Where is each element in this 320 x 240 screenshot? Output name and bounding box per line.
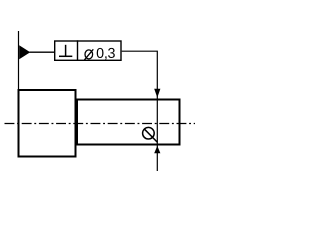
- diameter symbol of tolerance value: [85, 50, 93, 59]
- shaft (right rectangle body): [77, 100, 180, 145]
- feature control frame: [55, 41, 121, 60]
- arrowhead pointing up at shaft bottom edge: [154, 146, 160, 153]
- centerline (axis, dash-dot): [5, 123, 196, 125]
- leader wire from datum triangle to frame: [30, 51, 55, 53]
- datum triangle (filled): [19, 45, 30, 59]
- leader wire from frame to shaft: [122, 51, 158, 171]
- frame divider: [77, 40, 79, 60]
- datum extension line: [18, 31, 20, 89]
- svg-text:0,3: 0,3: [96, 46, 115, 62]
- tolerance value 0,3: [96, 46, 115, 62]
- perpendicularity symbol: [59, 55, 72, 57]
- arrowhead pointing down at shaft top edge: [154, 89, 160, 98]
- flange (left rectangle body): [19, 90, 76, 157]
- toleranced feature mark (circle with diagonal): [143, 127, 155, 139]
